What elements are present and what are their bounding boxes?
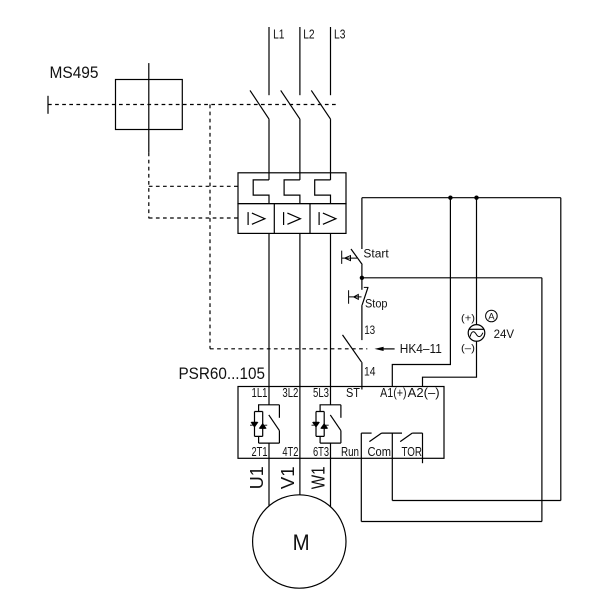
svg-text:A: A xyxy=(488,312,495,323)
svg-text:V1: V1 xyxy=(278,466,298,489)
magnetic trip symbol I> pole 3 xyxy=(318,212,320,225)
wire phase2 breaker through PSR to motor xyxy=(299,233,301,494)
breaker pole 3 blade xyxy=(311,90,330,119)
svg-text:(+): (+) xyxy=(461,312,475,324)
relay contact TOR blade xyxy=(400,433,412,442)
wire start to junction xyxy=(361,265,363,278)
svg-text:14: 14 xyxy=(364,364,376,378)
wire L2 supply xyxy=(299,27,301,95)
svg-text:M: M xyxy=(293,530,310,555)
wire phase1 through PSR to motor xyxy=(268,443,270,506)
magnetic row divider 1 xyxy=(273,204,275,234)
svg-text:Run: Run xyxy=(341,444,359,459)
relay contact TOR lead xyxy=(412,432,422,434)
thermal element phase 1 xyxy=(253,180,269,204)
junction node start/hold xyxy=(360,276,364,280)
breaker pole 1 blade xyxy=(250,90,269,119)
svg-text:ST: ST xyxy=(346,385,360,400)
HK4-11 pointer arrow xyxy=(383,348,395,350)
svg-text:5L3: 5L3 xyxy=(313,385,329,400)
hold rail Run xyxy=(541,278,543,522)
wire rail to supply plus xyxy=(476,198,478,325)
breaker magnetic row box xyxy=(238,204,346,234)
aux contact HK4-11 blade xyxy=(343,335,362,362)
svg-text:W1: W1 xyxy=(309,466,329,489)
stop pushbutton seat tick xyxy=(364,286,369,288)
svg-text:Start: Start xyxy=(363,248,389,260)
linkage dashed vertical from operator xyxy=(148,153,150,219)
thyristor block phase 1 xyxy=(255,405,280,443)
svg-text:2T1: 2T1 xyxy=(252,444,268,459)
svg-text:L1: L1 xyxy=(273,27,284,41)
PSR softstarter box xyxy=(238,387,444,459)
linkage dashed horizontal xyxy=(48,104,337,106)
wire phase1 breaker to PSR xyxy=(268,233,270,404)
magnetic trip symbol I> pole 1 xyxy=(247,212,249,225)
motor M1 circle xyxy=(253,495,346,588)
wire Run terminal down xyxy=(360,433,362,521)
wire rail to start contact xyxy=(361,198,363,249)
wire Run return xyxy=(361,521,542,523)
linkage end tick xyxy=(47,96,49,114)
linkage dashed to magnetic trip xyxy=(149,217,238,219)
start pushbutton actuator xyxy=(342,251,357,264)
thyristor symbols phase 3 xyxy=(312,422,329,428)
svg-text:HK4–11: HK4–11 xyxy=(400,342,442,356)
wire A1 from rail xyxy=(392,198,450,387)
thyristor symbols phase 1 xyxy=(250,422,267,428)
wire TOR stub xyxy=(422,433,424,463)
wire L1 supply xyxy=(268,27,270,95)
svg-text:Stop: Stop xyxy=(365,298,388,310)
svg-text:4T2: 4T2 xyxy=(282,444,298,459)
stop pushbutton blade xyxy=(362,288,368,306)
relay contact mid lead xyxy=(382,432,403,434)
svg-text:3L2: 3L2 xyxy=(282,385,298,400)
junction node A1 rail xyxy=(448,196,452,200)
24V supply source circle xyxy=(468,325,485,342)
start pushbutton blade xyxy=(351,249,362,265)
wire phase3 through PSR to motor xyxy=(330,443,332,507)
hold wire junction to right xyxy=(362,277,542,279)
MS495 operator box xyxy=(116,80,183,130)
thermal element phase 2 xyxy=(284,180,300,204)
thermal element phase 3 xyxy=(315,180,331,204)
svg-text:(–): (–) xyxy=(461,343,475,355)
MS495 operator axis line xyxy=(148,63,150,153)
svg-text:13: 13 xyxy=(364,323,375,337)
svg-text:MS495: MS495 xyxy=(50,63,99,82)
wire pole3 to trip box xyxy=(330,119,332,180)
svg-text:PSR60...105: PSR60...105 xyxy=(179,364,266,383)
thyristor block phase 3 xyxy=(316,405,341,443)
svg-text:A2(–): A2(–) xyxy=(408,385,440,400)
svg-text:L2: L2 xyxy=(303,27,314,41)
wire Com terminal down xyxy=(391,433,393,500)
wire pole1 to trip box xyxy=(268,119,270,180)
wire pole2 to trip box xyxy=(299,119,301,180)
relay contact Run blade xyxy=(369,433,381,442)
breaker trip unit box xyxy=(238,173,346,204)
magnetic row divider 2 xyxy=(309,204,311,234)
wire phase3 breaker to PSR xyxy=(330,233,332,404)
stop pushbutton actuator xyxy=(349,290,362,304)
wire L3 supply xyxy=(330,27,332,95)
svg-text:TOR: TOR xyxy=(402,444,423,459)
wire supply minus to A2 xyxy=(423,341,477,386)
ammeter symbol A circle xyxy=(486,310,498,322)
svg-text:A1(+): A1(+) xyxy=(380,385,407,400)
svg-text:1L1: 1L1 xyxy=(252,385,268,400)
linkage dashed vertical to aux contact xyxy=(209,105,211,349)
junction node supply rail xyxy=(474,196,478,200)
svg-text:L3: L3 xyxy=(334,27,345,41)
right rail to Com xyxy=(560,198,562,501)
svg-text:U1: U1 xyxy=(247,466,267,489)
control rail top xyxy=(362,197,561,199)
svg-text:Com: Com xyxy=(368,444,392,459)
linkage dashed to HK4-11 xyxy=(210,348,367,350)
wire Com return xyxy=(392,500,561,502)
wire pin 14 to ST terminal xyxy=(361,362,363,389)
magnetic trip symbol I> pole 2 xyxy=(283,212,285,225)
svg-text:24V: 24V xyxy=(494,327,514,341)
relay contact Run lead xyxy=(361,432,371,434)
linkage dashed to thermal trip xyxy=(149,185,238,187)
svg-text:6T3: 6T3 xyxy=(313,444,329,459)
wire junction to stop xyxy=(361,278,363,290)
wire stop to aux contact pin 13 xyxy=(361,305,363,340)
breaker pole 2 blade xyxy=(281,90,300,119)
